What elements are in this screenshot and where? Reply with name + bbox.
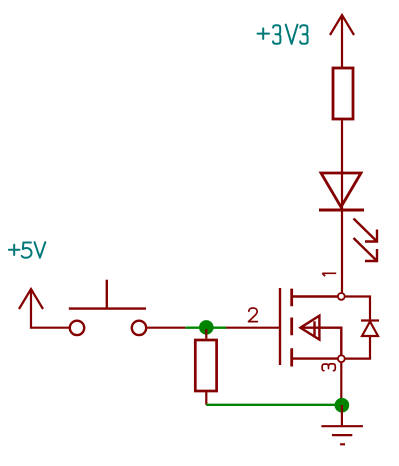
- transistor Q1 source bar: [292, 357, 338, 359]
- ground symbol line 2: [332, 434, 352, 436]
- body diode D2 wire top: [345, 297, 370, 321]
- pin number 1: [322, 273, 336, 276]
- junction node source: [335, 398, 350, 413]
- wire +3V3 to R1: [341, 15, 343, 67]
- pin number 3: [322, 364, 335, 371]
- transistor Q1 substrate arrow: [300, 316, 319, 340]
- body diode D2 cathode bar: [361, 319, 379, 321]
- body diode D2 triangle: [362, 322, 378, 337]
- pin 3 circle: [338, 355, 345, 362]
- LED D1 triangle: [321, 173, 361, 207]
- transistor Q1 drain bar: [292, 295, 338, 297]
- wire R2 to source junction (green): [206, 404, 342, 406]
- switch SW1 left contact: [70, 321, 84, 335]
- pin 1 circle: [338, 293, 345, 300]
- power symbol +3V3 arrow: [330, 15, 354, 35]
- junction node gate: [199, 320, 214, 335]
- LED D1 light arrow 2: [354, 238, 378, 261]
- power label +3V3: [258, 25, 308, 44]
- transistor Q1 channel dashes: [290, 289, 293, 367]
- ground symbol line 1: [321, 425, 363, 427]
- switch SW1 right contact: [132, 321, 146, 335]
- switch SW1 right pin: [148, 327, 186, 329]
- wire switch to junction (green): [185, 327, 226, 329]
- wire junction to ground: [341, 405, 343, 426]
- switch SW1 bar: [69, 307, 146, 309]
- transistor Q1 gate line: [279, 288, 281, 365]
- transistor Q1 gate pin: [226, 327, 280, 329]
- resistor R2: [195, 340, 216, 391]
- transistor Q1 substrate arrow inner bar: [313, 321, 315, 336]
- ground symbol line 3: [340, 443, 345, 445]
- resistor R2 bottom pin: [205, 391, 207, 405]
- pin number 2: [249, 308, 258, 322]
- body diode D2 wire bottom: [345, 336, 370, 359]
- wire R1 to LED: [341, 120, 343, 293]
- resistor R1: [333, 68, 353, 119]
- transistor Q1 substrate connection: [300, 328, 341, 355]
- LED D1 light arrow 1: [354, 219, 378, 242]
- resistor R2 top pin: [205, 329, 207, 339]
- pin 3 lead to junction: [340, 362, 342, 400]
- power symbol +5V arrow: [19, 289, 43, 309]
- LED D1 cathode bar: [319, 209, 364, 212]
- switch SW1 stem: [106, 280, 108, 309]
- wire +5V to switch: [31, 289, 69, 328]
- power label +5V: [9, 242, 45, 258]
